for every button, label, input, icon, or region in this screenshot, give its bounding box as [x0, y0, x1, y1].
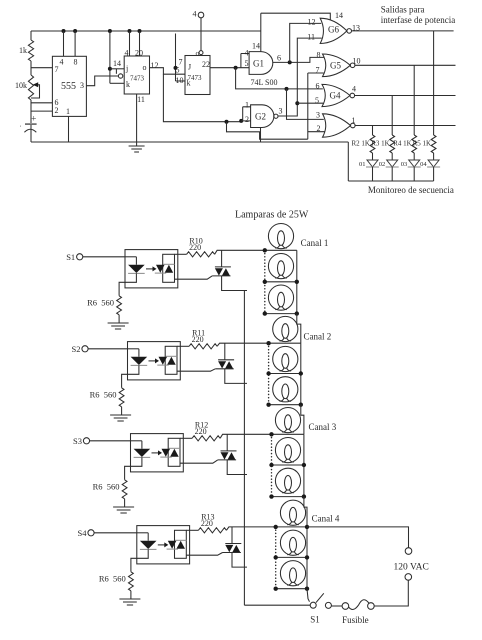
terminal 120VAC top [405, 548, 412, 555]
svg-text:interfase de potencia: interfase de potencia [381, 15, 455, 25]
wire LED to monitor bus [391, 167, 393, 181]
svg-text:Salidas para: Salidas para [381, 5, 425, 15]
wire dotted expansion canal 1 [264, 250, 266, 313]
wire R11 to lamp rail [217, 343, 269, 346]
LED 03 [413, 153, 415, 160]
lamp canal 2 top [273, 316, 298, 341]
LED 01 [372, 153, 374, 160]
svg-text:120 VAC: 120 VAC [394, 563, 429, 573]
resistor R6 560 [119, 388, 124, 407]
wire lamp right vertical canal 4 [306, 527, 308, 589]
svg-text:o: o [143, 63, 147, 72]
lamp canal 3 bottom [275, 468, 300, 493]
wire S1 to optocoupler [83, 256, 125, 258]
phototriac box inside optocoupler [165, 346, 177, 374]
wire branch to G4 pin5 [297, 102, 323, 104]
wire lamp rail 3 canal 2 [269, 404, 301, 406]
wire jog canal 1 to canal 2 [297, 314, 301, 344]
wire dotted expansion canal 2 [268, 343, 270, 405]
svg-text:6: 6 [277, 54, 281, 63]
resistor R13 220 [198, 528, 226, 533]
wire triac bottom to common return [225, 369, 247, 384]
wire G4 output 4 [354, 95, 455, 97]
svg-text:J: J [188, 63, 191, 72]
svg-text:12: 12 [151, 61, 159, 70]
node dots canal 3 [269, 432, 273, 436]
arrow optocoupler [152, 452, 159, 454]
lamp canal 1 top [268, 224, 293, 249]
wire terminal 4 to U3 clock [200, 18, 202, 51]
lamp canal 3 mid [275, 438, 300, 463]
wire tap to resistor R3 [391, 96, 393, 136]
svg-text:Canal 2: Canal 2 [304, 332, 332, 342]
phototriac triangles [168, 541, 177, 549]
LED 04 [433, 153, 435, 160]
IC 7473 U2 flip-flop [124, 56, 149, 94]
svg-text:S3: S3 [73, 436, 82, 446]
wire R6 to ground [124, 499, 126, 507]
lamp canal 2 bottom [273, 377, 298, 402]
wire dotted expansion canal 4 [275, 527, 277, 589]
phototriac triangles [156, 265, 165, 273]
wire S3 to optocoupler [90, 440, 131, 442]
wire phototriac to resistor R10 [175, 253, 187, 255]
triac Q1 [221, 250, 223, 267]
wire G5 pin7 vertical [307, 73, 309, 139]
wire U2 pin12 output [150, 68, 186, 75]
wire U2 top pins [129, 31, 131, 56]
resistor R10 220 [187, 252, 215, 257]
ground R6 [119, 598, 140, 600]
wire triac bottom to common return [227, 460, 247, 475]
phototriac triangles [159, 357, 168, 365]
svg-text:G1: G1 [253, 59, 264, 69]
svg-text:220: 220 [195, 427, 207, 436]
svg-text:S2: S2 [72, 344, 81, 354]
node dots canal 4 [274, 525, 278, 529]
wire 555 pin2 [31, 110, 52, 112]
wire left supply vertical [30, 31, 32, 40]
fuse Fusible [368, 603, 375, 610]
wire 555 pin4 to rail [63, 31, 65, 56]
resistor R6 560 [117, 296, 122, 315]
svg-text:555: 555 [61, 81, 76, 92]
svg-text:R5 1K: R5 1K [413, 140, 431, 148]
wire G1 out branch to G6 pin12 [290, 23, 322, 62]
svg-text:14: 14 [113, 59, 121, 68]
optocoupler U6 box [131, 434, 184, 472]
wire lamp rail 3 canal 3 [272, 496, 304, 498]
wire G2 output to G6 pin11 [278, 38, 322, 116]
wire rail down to monitor bus [347, 142, 349, 181]
svg-text:+: + [31, 113, 36, 123]
wire lamp rail 1 canal 3 [272, 433, 304, 435]
wire LED cathode out of box [119, 273, 136, 295]
wire 555 pin6 [31, 102, 52, 104]
svg-text:7473: 7473 [188, 74, 203, 82]
gate G4 NOR [322, 84, 350, 106]
lamp canal 2 mid [273, 346, 298, 371]
wire LED cathode out of box [122, 365, 139, 387]
triac Q2 [224, 343, 226, 360]
svg-text:3: 3 [279, 107, 283, 116]
svg-text:14: 14 [335, 11, 343, 20]
svg-text:S1: S1 [310, 614, 320, 624]
node dots canal 1 [263, 248, 267, 252]
node dots on top rail [62, 29, 66, 33]
lamp canal 4 top [280, 500, 305, 525]
wire branch to G4 pin6 [236, 68, 323, 89]
node canal 4 rail to 120VAC [305, 525, 309, 529]
wire R6 to ground [130, 591, 132, 599]
resistor R11 220 [189, 344, 217, 349]
arrow optocoupler [146, 268, 153, 270]
wire lamp rail 1 canal 2 [269, 342, 301, 344]
wire lamp right vertical canal 3 [303, 434, 305, 496]
svg-text:1: 1 [245, 101, 249, 110]
wire common return to switch [244, 604, 310, 606]
wire triac gate from optocoupler [186, 553, 222, 556]
resistor R3 1K [390, 135, 395, 153]
svg-text:4: 4 [352, 85, 356, 94]
wire dotted expansion canal 3 [271, 434, 273, 496]
svg-text:G6: G6 [328, 25, 339, 35]
svg-text:12: 12 [308, 18, 316, 27]
wire triac bottom to common return [232, 553, 247, 568]
svg-text:7473: 7473 [130, 75, 145, 83]
wire 555 pin8 to rail [74, 31, 76, 56]
wire U3 pin22 output [210, 67, 249, 69]
wire lamp right vertical canal 1 [296, 250, 298, 313]
resistor R4 1K [412, 135, 417, 153]
wire LED to monitor bus [433, 167, 435, 181]
wire 555 pin1 to bottom rail [68, 116, 70, 142]
svg-text:.: . [20, 121, 22, 129]
wire JK tie vertical U2 [109, 31, 111, 83]
wire lamp rail 1 canal 4 [276, 526, 307, 528]
wire G6 pin14 feed [261, 13, 331, 19]
wire jog canal 2 to canal 3 [301, 405, 304, 435]
svg-text:1k: 1k [19, 46, 27, 55]
svg-text:G5: G5 [330, 61, 341, 71]
svg-text:G2: G2 [255, 112, 266, 122]
terminal 4 [198, 12, 204, 18]
arrow optocoupler [158, 544, 165, 546]
wire LED to monitor bus [413, 167, 415, 181]
gate G6 NOR [320, 18, 347, 43]
svg-text:220: 220 [192, 335, 204, 344]
svg-text:R6 560: R6 560 [87, 297, 114, 307]
svg-text:S4: S4 [78, 528, 88, 538]
wire G5 output 10 [355, 64, 456, 66]
phototriac triangles [162, 449, 171, 457]
wire tap to resistor R5 [433, 31, 435, 135]
wire R6 to ground [121, 407, 123, 415]
wire LED to monitor bus [372, 167, 374, 181]
gate G2 NAND 74LS00 [239, 119, 243, 123]
wire G3 pin2 [308, 131, 325, 133]
wire triac gate from optocoupler [175, 276, 213, 279]
svg-text:Lamparas de 25W: Lamparas de 25W [235, 210, 309, 221]
wire R6 to ground [118, 315, 120, 323]
svg-text:220: 220 [201, 519, 213, 528]
svg-text:2: 2 [245, 115, 249, 124]
svg-text:3: 3 [80, 81, 84, 90]
optocoupler U5 box [128, 342, 181, 380]
wire lamp rail 2 canal 3 [272, 464, 304, 466]
arrow optocoupler [149, 360, 156, 362]
wire phototriac to resistor R11 [177, 345, 189, 347]
svg-text:14: 14 [252, 42, 260, 51]
wire lamp rail 2 canal 1 [265, 281, 297, 283]
node junction pin7 [31, 67, 52, 69]
svg-text:10k: 10k [15, 81, 27, 90]
svg-text:Canal 3: Canal 3 [309, 422, 337, 432]
svg-text:R3 1K: R3 1K [371, 140, 389, 148]
svg-text:2: 2 [55, 106, 59, 115]
resistor 1k [28, 40, 33, 61]
LED inside optocoupler [128, 348, 139, 350]
wire G6 output 13 [352, 30, 454, 32]
wire R12 to lamp rail [220, 434, 271, 438]
lamp canal 4 mid [280, 530, 305, 555]
lamp canal 3 top [275, 408, 300, 433]
svg-text:5: 5 [315, 96, 319, 105]
wire G1 output to G5 pin8 [273, 57, 324, 62]
lamp canal 1 bottom [268, 285, 293, 310]
svg-text:G4: G4 [330, 91, 341, 101]
resistor R6 560 [122, 480, 127, 499]
svg-text:04: 04 [420, 161, 427, 168]
wire tap to resistor R2 [372, 126, 374, 136]
lamp canal 1 mid [268, 254, 293, 279]
wire lamp rail 3 canal 4 [276, 588, 307, 590]
switch S1 [325, 602, 331, 608]
svg-text:10: 10 [176, 76, 184, 85]
wire triac gate from optocoupler [177, 369, 215, 371]
IC 555 timer U1 [52, 56, 86, 116]
wire resistor to pot [30, 61, 32, 75]
phototriac box inside optocoupler [168, 438, 180, 466]
resistor R12 220 [192, 436, 220, 441]
ground R6 [110, 414, 131, 416]
terminal 120VAC bottom [405, 574, 412, 581]
svg-text:S1: S1 [66, 252, 75, 262]
svg-text:4: 4 [125, 49, 129, 58]
wire triac bottom to common return [222, 276, 247, 291]
svg-text:220: 220 [189, 243, 201, 252]
gate G5 NOR [323, 54, 351, 77]
wire G2 bottom to rail [260, 128, 262, 143]
wire R13 to lamp rail [226, 527, 275, 530]
svg-text:1: 1 [66, 107, 70, 116]
LED inside optocoupler [131, 440, 142, 442]
svg-text:R6 560: R6 560 [93, 481, 120, 491]
wire fuse to switch [331, 605, 342, 607]
svg-text:7: 7 [316, 66, 320, 75]
wire U3 JK tie vertical [175, 34, 177, 82]
wire lamp bank bottom to switch [307, 589, 310, 602]
wire routing to G3 pin2 [227, 122, 308, 140]
wire bottom rail [31, 141, 348, 143]
gate G1 NAND 74LS00 [241, 54, 249, 68]
svg-text:Fusible: Fusible [342, 615, 369, 625]
wire common return vertical [243, 291, 245, 606]
resistor R5 1K [431, 135, 436, 153]
svg-text:8: 8 [317, 51, 321, 60]
wire lamp rail 1 canal 1 [265, 249, 297, 251]
wire phototriac to resistor R13 [186, 529, 198, 531]
wire triac gate from optocoupler [180, 460, 218, 463]
wire lamp rail 2 canal 2 [269, 373, 301, 375]
svg-text:4: 4 [193, 10, 197, 19]
wire canal4 rail1 to 120VAC terminal [307, 527, 409, 548]
potentiometer 10k [28, 75, 33, 100]
wire jog canal 3 to canal 4 [304, 497, 307, 527]
triac Q4 [231, 527, 233, 544]
ground R6 [108, 322, 129, 324]
svg-text:02: 02 [379, 161, 386, 168]
wire cap to bottom rail [30, 125, 32, 142]
svg-text:10: 10 [353, 57, 361, 66]
LED inside optocoupler [125, 256, 136, 258]
svg-text:03: 03 [401, 161, 408, 168]
svg-text:7: 7 [55, 65, 59, 74]
wire lamp rail 2 canal 4 [276, 556, 307, 558]
svg-text:22: 22 [202, 60, 210, 69]
svg-text:2: 2 [317, 124, 321, 133]
wire LED cathode out of box [125, 457, 142, 479]
wire monitor bus [348, 180, 433, 182]
wire U2 pin11 to ground [136, 94, 138, 146]
svg-text:4: 4 [245, 49, 249, 58]
svg-text:5: 5 [245, 59, 249, 68]
wire G1 pin14 from top [260, 13, 262, 51]
svg-text:j: j [125, 64, 128, 73]
svg-text:R4 1K: R4 1K [393, 140, 411, 148]
svg-text:R6 560: R6 560 [99, 573, 126, 583]
svg-text:74L S00: 74L S00 [250, 78, 277, 87]
svg-text:1: 1 [352, 116, 356, 125]
wire S4 to optocoupler [94, 532, 137, 534]
optocoupler U7 box [137, 526, 190, 564]
svg-text:Canal 1: Canal 1 [301, 238, 329, 248]
wire branch to G3 pin3 [287, 89, 324, 120]
svg-text:01: 01 [359, 161, 366, 168]
wire lamp rail 3 canal 1 [265, 313, 297, 315]
phototriac box inside optocoupler [175, 530, 187, 558]
potentiometer wiper arrow [31, 85, 40, 98]
ground U2 [129, 145, 145, 147]
wire tap to resistor R4 [413, 65, 415, 135]
svg-text:R6 560: R6 560 [90, 389, 117, 399]
svg-text:11: 11 [307, 33, 315, 42]
wire pot to cap [30, 100, 32, 123]
node dots canal 2 [266, 341, 270, 345]
wire S2 to optocoupler [88, 348, 127, 350]
wire 120VAC to fuse [374, 580, 408, 606]
phototriac box inside optocoupler [163, 254, 175, 282]
svg-text:5: 5 [176, 66, 180, 75]
triac Q3 [226, 434, 228, 451]
gate G3 NOR [323, 114, 351, 137]
svg-text:Monitoreo de secuencia: Monitoreo de secuencia [368, 185, 454, 195]
wire LED cathode out of box [131, 549, 148, 571]
resistor R2 1K [370, 135, 375, 153]
IC 7473 U3 flip-flop [185, 56, 210, 95]
optocoupler U4 box [125, 250, 178, 288]
LED inside optocoupler [137, 532, 148, 534]
svg-text:8: 8 [74, 58, 78, 67]
svg-text:Canal 4: Canal 4 [312, 514, 340, 524]
wire R10 to lamp rail [215, 250, 265, 254]
wire U2 out down to G2 [163, 74, 241, 122]
ground R6 [113, 506, 134, 508]
wire G3 output 1 [355, 125, 456, 127]
wire clock bubble stub U2 [115, 69, 117, 74]
lamp canal 4 bottom [280, 561, 305, 586]
resistor R6 560 [128, 572, 133, 591]
svg-text:R2 1K: R2 1K [352, 140, 370, 148]
wire lamp right vertical canal 2 [300, 343, 302, 405]
wire phototriac to resistor R12 [180, 437, 192, 439]
LED 02 [391, 153, 393, 160]
wire top supply rail [31, 30, 261, 32]
wire 555 pin3 output [86, 76, 118, 86]
svg-text:6: 6 [316, 82, 320, 91]
svg-text:11: 11 [137, 95, 145, 104]
svg-text:3: 3 [316, 111, 320, 120]
svg-text:4: 4 [60, 58, 64, 67]
